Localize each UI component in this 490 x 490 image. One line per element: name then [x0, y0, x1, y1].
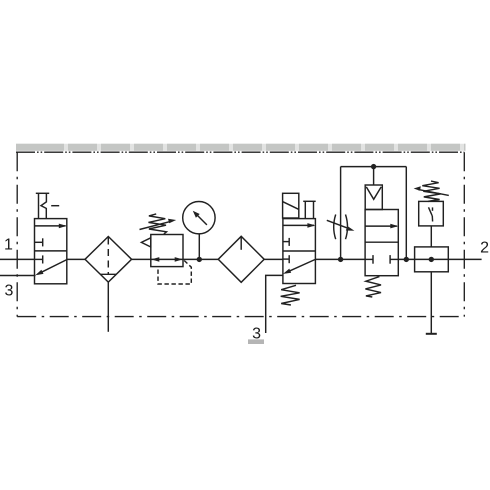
- pressure switch spring: [422, 181, 440, 201]
- valve V4 lower position blocked port left: [365, 255, 373, 264]
- bypass junction node: [404, 257, 409, 262]
- sensing line down: [430, 272, 432, 334]
- check valve pilot stem: [373, 167, 375, 185]
- filter F2 (fine filter): [218, 236, 264, 282]
- pressure switch contact symbol: [429, 207, 433, 221]
- valve V4 lower position blocked port right: [390, 255, 398, 264]
- valve V3 upper position flow arrow: [283, 223, 316, 228]
- wire F1 to regulator: [132, 258, 151, 260]
- wire V4 to pressure switch: [398, 258, 414, 260]
- grey mark under bottom port 3 label: [248, 339, 264, 344]
- svg-text:1: 1: [4, 237, 13, 254]
- pressure switch PE box: [419, 201, 444, 226]
- enclosure border left: [16, 152, 18, 316]
- valve V1 lower position blocked port: [35, 255, 43, 263]
- sensing line end bar: [426, 333, 437, 335]
- port 2 line: [448, 258, 481, 260]
- enclosure border top (dash-dot-dot): [16, 151, 464, 153]
- bypass right wire down: [405, 167, 407, 260]
- wire F2 to valve V3: [264, 258, 283, 260]
- throttle vertical line: [340, 167, 342, 260]
- valve V1 body (3/2 shut-off valve): [35, 219, 67, 284]
- valve V1 lower position exhaust path arrow: [35, 260, 67, 276]
- gauge branch node: [197, 257, 202, 262]
- wire through sensing body: [415, 258, 449, 260]
- valve V1 upper position flow arrow: [35, 224, 67, 229]
- pressure switch sensing body: [415, 247, 449, 272]
- valve V3 solenoid coil: [283, 193, 299, 218]
- pressure gauge G1: [183, 202, 215, 234]
- valve V4 body (pilot operated soft-start): [365, 210, 398, 276]
- svg-text:3: 3: [5, 282, 14, 299]
- adjustable throttle arcs: [334, 215, 348, 240]
- wire V1 to filter F1: [67, 258, 85, 260]
- filter F1 with water separator: [85, 237, 132, 283]
- valve V3 upper position blocked port: [283, 238, 289, 246]
- wire V3 to V4: [315, 258, 365, 260]
- enclosure border right: [463, 152, 465, 316]
- wire regulator to filter F2: [183, 258, 218, 260]
- pressure switch adjustment arrow: [414, 186, 449, 195]
- sensing node: [429, 257, 434, 262]
- bypass top wire: [341, 166, 407, 168]
- valve V1 manual detent actuator: [36, 193, 59, 218]
- throttle adjustment arrow: [327, 220, 355, 230]
- enclosure highlight band: [16, 144, 466, 151]
- regulator relief triangle: [141, 238, 150, 247]
- filter F1 drain line: [107, 282, 109, 332]
- enclosure border bottom: [17, 316, 464, 318]
- valve V1 upper position blocked port: [35, 238, 43, 246]
- valve V4 return spring: [365, 277, 381, 297]
- valve V3 lower position exhaust path arrow: [283, 259, 316, 274]
- valve V3 manual override: [303, 201, 316, 218]
- port 3 line (left): [0, 275, 36, 277]
- valve V3 return spring: [281, 285, 300, 305]
- pressure gauge stem: [198, 234, 200, 260]
- pressure switch link stem: [430, 226, 432, 247]
- regulator flow path arrows: [151, 257, 183, 262]
- regulator adjustment arrow: [140, 219, 177, 230]
- pressure regulator LR body: [151, 235, 183, 267]
- port 1 line: [0, 258, 35, 260]
- regulator adjustment spring: [149, 214, 167, 234]
- valve V4 upper position flow arrow: [365, 224, 398, 229]
- check valve branch node: [371, 164, 376, 169]
- throttle branch node: [338, 257, 343, 262]
- valve V3 exhaust port wire: [266, 275, 283, 333]
- valve V3 lower position blocked port: [283, 255, 289, 263]
- regulator pilot feedback dashed line: [158, 261, 191, 285]
- valve V3 body (3/2 solenoid valve): [283, 219, 316, 284]
- svg-text:2: 2: [480, 240, 489, 257]
- check valve on V4 pilot: [365, 185, 382, 210]
